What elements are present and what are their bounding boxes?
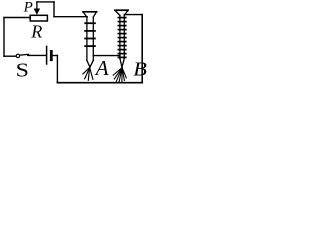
svg-text:B: B <box>133 58 147 81</box>
coil B turns (10 dense) <box>118 18 125 58</box>
battery long plate (+) <box>46 46 48 64</box>
wire to switch <box>4 55 16 57</box>
wire bottom <box>57 82 142 84</box>
wire to electromagnet A head <box>54 16 87 18</box>
svg-text:S: S <box>16 58 29 81</box>
wire top (arrow to corner) <box>37 1 54 3</box>
electromagnet A screw core <box>83 12 97 67</box>
wire battery to corner <box>53 55 58 57</box>
switch S blade <box>20 53 29 56</box>
wire vertical right of rheostat <box>53 2 55 17</box>
wire B head to right vertical <box>124 14 142 16</box>
wire down from battery corner <box>56 56 58 83</box>
wire A to B <box>93 55 120 57</box>
slider arrow P <box>34 2 40 15</box>
battery short thick plate (-) <box>50 51 53 59</box>
pins attracted under A <box>83 68 93 81</box>
resistor R (rheostat box) <box>30 15 47 21</box>
wire left vertical <box>3 18 5 57</box>
wire right vertical <box>141 15 143 83</box>
switch S circle <box>16 54 19 57</box>
svg-text:R: R <box>30 22 42 42</box>
electromagnet B screw core <box>115 10 128 67</box>
coil A turns (4 sparse) <box>85 23 95 46</box>
svg-text:P: P <box>23 0 33 15</box>
pins attracted under B <box>113 68 126 83</box>
svg-text:A: A <box>94 56 109 80</box>
wire resistor left lead <box>4 17 30 19</box>
wire switch to battery <box>28 54 46 56</box>
